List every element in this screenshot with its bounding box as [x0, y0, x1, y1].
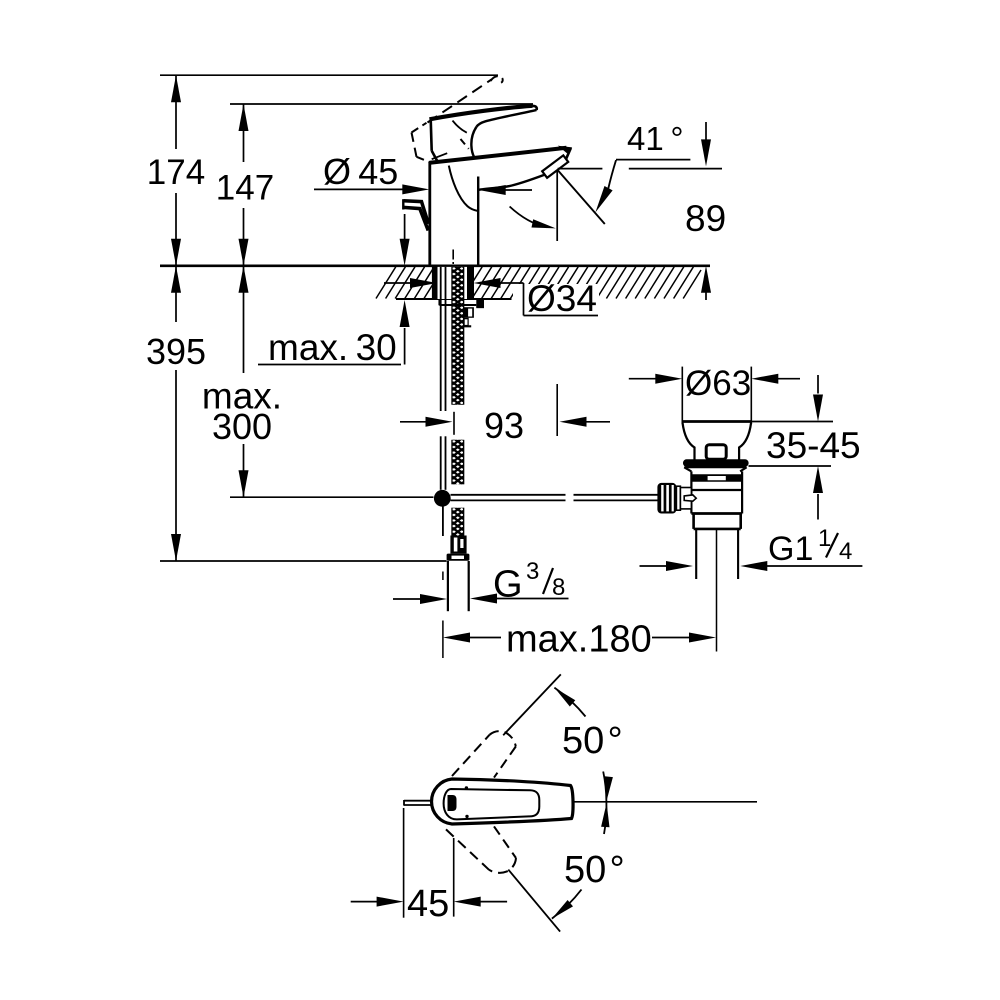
handle pin [404, 800, 431, 806]
faucet body right edge [477, 177, 479, 266]
bottom reference line [160, 560, 447, 562]
dimension diameter 63 [629, 364, 800, 403]
extension line lever top [230, 103, 533, 105]
clamp screw knob [657, 483, 696, 514]
dimension 45 [351, 808, 507, 925]
faucet body left edge [428, 163, 431, 266]
tail pipe centerline [442, 572, 444, 659]
dimension 395 [146, 266, 206, 561]
pull rod upper [441, 267, 446, 411]
dimension 89 [685, 122, 726, 300]
faucet body centerline dash [452, 250, 454, 265]
svg-text:300: 300 [212, 406, 272, 447]
svg-text:93: 93 [484, 405, 524, 446]
svg-text:max. 30: max. 30 [268, 327, 397, 368]
upper 50 degree arc [554, 688, 622, 802]
dimension max 180 [443, 619, 716, 661]
svg-text:174: 174 [147, 153, 205, 192]
supply hose upper section [451, 259, 464, 418]
svg-text:G1: G1 [768, 530, 813, 568]
aerator reference line [558, 168, 722, 170]
drain body with overflow slots [691, 471, 742, 513]
shank right sleeve [467, 266, 474, 299]
dimension G 3/8 [393, 558, 569, 606]
dimension diameter 45 [314, 151, 532, 195]
drain knob square [706, 445, 726, 460]
svg-text:50 °: 50 ° [564, 849, 625, 891]
svg-text:41 °: 41 ° [627, 120, 684, 157]
handle centerline [574, 801, 757, 803]
lever bell right edge [471, 127, 476, 157]
svg-text:Ø63: Ø63 [685, 364, 751, 403]
lever block left edge [431, 119, 432, 151]
spout swivel arc with arrow [510, 207, 556, 229]
ball joint [434, 490, 451, 507]
dimension 93 [400, 384, 610, 446]
dashed handle rotated down [446, 826, 516, 872]
dashed handle rotated up [452, 731, 516, 777]
dimension G1 1/4 [640, 525, 863, 571]
horizontal actuation rod [451, 495, 659, 501]
spout underside curve [479, 175, 545, 190]
label 41 degrees [616, 120, 690, 160]
drain tail pipe [696, 529, 738, 579]
drain body bottom step [691, 514, 742, 529]
mounting washer [439, 299, 484, 308]
pull rod below ball [442, 507, 444, 537]
water stream line [558, 170, 605, 224]
dimension diameter 34 [384, 278, 599, 319]
svg-text:Ø34: Ø34 [527, 278, 597, 319]
aerator [542, 155, 568, 177]
lever blade top edge [430, 106, 533, 120]
extension line lever max height [160, 74, 498, 76]
countertop surface line [160, 264, 710, 267]
handle logo mark [448, 795, 457, 811]
svg-text:4: 4 [839, 538, 852, 565]
drain flange extension lines [682, 367, 751, 424]
supply tail pipe [448, 561, 469, 611]
supply hose mid section [451, 432, 464, 496]
spout tip edge [560, 147, 571, 160]
svg-text:35-45: 35-45 [766, 425, 861, 466]
svg-text:50 °: 50 ° [562, 720, 623, 762]
lower 50 degree arc [552, 802, 625, 919]
shank left sleeve [432, 266, 438, 299]
faucet body inner arc [449, 166, 478, 211]
pull rod mid [441, 436, 446, 490]
dashed lever raised position [412, 76, 503, 162]
countertop hatching [376, 267, 701, 299]
rod reference line [230, 496, 434, 498]
svg-text:Ø 45: Ø 45 [323, 151, 398, 192]
lever inner arc [453, 121, 467, 133]
supply hose lower section [451, 500, 464, 547]
aerator extension line [556, 170, 558, 241]
drain body taper [684, 467, 746, 471]
svg-text:1: 1 [818, 525, 831, 552]
lever block bottom thin line [432, 153, 448, 159]
svg-text:G: G [493, 564, 523, 606]
shank white core [438, 267, 468, 299]
handle top view inner contour [444, 789, 540, 819]
dimension max 30 [258, 214, 410, 368]
drain pipe centerline [716, 529, 718, 652]
hose end fitting [447, 536, 470, 561]
handle screw dots [465, 786, 469, 818]
svg-text:45: 45 [407, 883, 449, 925]
svg-text:3: 3 [526, 558, 539, 585]
dimension max 300 [202, 266, 282, 497]
svg-text:89: 89 [685, 198, 726, 239]
svg-text:8: 8 [552, 574, 565, 601]
countertop underside line [396, 298, 512, 300]
drain flange cup [682, 422, 751, 460]
lever blade underside [477, 110, 537, 127]
lower 50 ray [508, 870, 560, 932]
svg-text:147: 147 [216, 169, 274, 208]
dimension 35-45 [749, 375, 861, 520]
spout top edge [430, 148, 567, 163]
svg-text:395: 395 [146, 331, 206, 372]
dimension 147 [216, 104, 274, 266]
drain gasket [683, 459, 749, 466]
svg-text:max.180: max.180 [506, 619, 652, 661]
handle top view outline [432, 779, 574, 824]
drain pull knob [403, 199, 428, 230]
41 degree arc with arrow [595, 160, 616, 212]
mounting nut steps [464, 307, 474, 326]
upper 50 ray [503, 674, 561, 735]
lever blade tip [533, 106, 537, 110]
lever block bottom edge [432, 151, 438, 161]
dimension 174 [147, 75, 205, 266]
